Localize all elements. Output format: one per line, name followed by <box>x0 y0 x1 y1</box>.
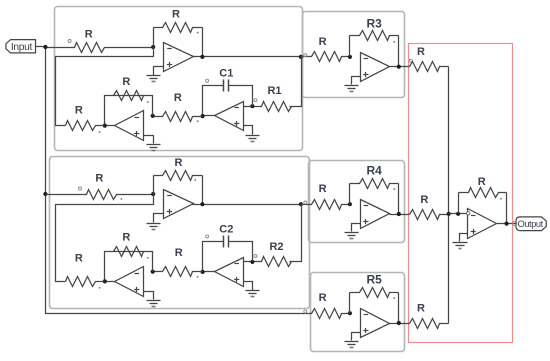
wire UR3 feedback down <box>398 36 400 67</box>
port marker <box>206 235 209 238</box>
wire U6 output <box>203 271 215 273</box>
node input junction <box>43 45 47 49</box>
resistor R stage1 integrator input <box>153 92 203 122</box>
wire U4 feedback up <box>153 176 155 195</box>
subsystem box R3 gain stage <box>303 12 405 98</box>
port marker <box>254 99 257 102</box>
wire summing vertical <box>448 67 450 324</box>
wire input to node A <box>36 47 46 48</box>
op-amp U7 <box>468 209 497 239</box>
wire U3 plus to ground <box>244 126 253 135</box>
svg-text:Output: Output <box>518 219 544 229</box>
ground U3 <box>246 136 260 142</box>
op-amp UR4 <box>361 200 390 229</box>
node stage1 output <box>299 55 303 59</box>
wire UR5 plus to ground <box>352 333 361 341</box>
node U5 inverting input <box>151 270 155 274</box>
subsystem box stage 2 <box>50 157 310 309</box>
svg-text:R: R <box>319 183 327 195</box>
wire C2 loop left <box>203 242 224 272</box>
wire C1 loop right <box>229 86 253 107</box>
node stage2 input junction <box>43 192 47 196</box>
resistor R stage2 return <box>66 253 105 287</box>
wire U1 output row <box>193 56 301 58</box>
node U1 output <box>200 55 204 59</box>
node U6 inverting input <box>250 260 254 264</box>
wire UR4 output <box>390 214 410 216</box>
pin marker <box>120 198 122 200</box>
port marker <box>254 255 257 258</box>
wire U4 output row <box>193 204 301 206</box>
svg-text:C1: C1 <box>219 68 233 80</box>
resistor R2 <box>244 241 292 267</box>
svg-text:R: R <box>75 105 83 117</box>
pin marker <box>194 179 196 181</box>
wire C1 loop left <box>203 86 224 117</box>
node U4 inverting input <box>151 192 155 196</box>
wire U1 feedback down <box>202 28 204 57</box>
svg-text:R: R <box>175 157 183 169</box>
ground U6 <box>246 291 260 297</box>
wire UR4 feedback up <box>349 184 351 205</box>
svg-text:R: R <box>172 9 180 21</box>
svg-text:R3: R3 <box>367 16 383 30</box>
subsystem box R5 gain stage <box>311 273 405 352</box>
resistor R stage2 U5 feedback <box>114 232 144 257</box>
ground U2 <box>147 145 161 151</box>
input port tag <box>6 40 36 53</box>
resistor R stage2 U4 feedback <box>154 157 203 181</box>
node U2 inverting input <box>151 114 155 118</box>
wire U1 plus to ground <box>154 67 164 76</box>
resistor R stage1 U2 feedback <box>114 76 144 101</box>
svg-text:R: R <box>478 176 486 188</box>
resistor R3 feedback <box>350 16 399 40</box>
resistor R R4 stage input <box>301 183 350 209</box>
svg-text:Input: Input <box>11 42 33 53</box>
wire R2 vertical <box>290 205 302 262</box>
port marker <box>79 187 82 190</box>
wire U7 output <box>497 223 517 225</box>
node U6 output <box>201 270 205 274</box>
resistor R stage1 input <box>46 29 154 53</box>
svg-text:R: R <box>420 194 428 206</box>
node UR3 inverting input <box>348 55 352 59</box>
node U7 feedback tap <box>456 212 460 216</box>
ground U7 <box>453 243 468 249</box>
ground UR3 <box>345 86 359 92</box>
resistor R summing middle <box>410 194 449 220</box>
pin marker <box>197 276 199 278</box>
wire U4 feedback down <box>202 176 204 205</box>
port marker U7 inverting input <box>467 212 470 215</box>
wire UR4 feedback down <box>398 184 400 215</box>
port marker <box>206 79 209 82</box>
wire summing to U7 <box>449 213 468 215</box>
svg-text:R4: R4 <box>367 164 383 178</box>
wire C2 loop right <box>229 242 253 262</box>
node U4 output <box>200 202 204 206</box>
port marker <box>304 310 307 313</box>
pin marker <box>99 287 101 289</box>
svg-text:C2: C2 <box>219 223 233 235</box>
pin marker <box>147 101 149 103</box>
pin marker <box>500 198 502 200</box>
wire U2 output <box>105 125 115 127</box>
resistor R R3 stage input <box>301 36 350 62</box>
node U3 output <box>201 114 205 118</box>
svg-text:R: R <box>319 36 327 48</box>
resistor R5 feedback <box>350 273 399 298</box>
wire U5 output <box>105 281 115 283</box>
pin marker <box>393 297 395 299</box>
resistor R1 <box>244 85 292 112</box>
svg-text:R: R <box>95 173 103 185</box>
node U3 inverting input <box>250 104 254 108</box>
summing block red box <box>409 44 513 343</box>
pin marker <box>197 32 199 34</box>
wire UR4 plus to ground <box>352 224 361 232</box>
op-amp U6 integrator <box>215 258 244 287</box>
ground UR5 <box>345 342 359 348</box>
wire UR3 output <box>390 66 410 68</box>
resistor R stage1 U1 feedback <box>154 9 203 33</box>
wire feedback return stage1 <box>56 48 154 126</box>
svg-text:R2: R2 <box>269 241 283 253</box>
pin marker <box>393 41 395 43</box>
op-amp U3 integrator <box>215 102 244 131</box>
wire R1 vertical <box>290 57 302 107</box>
resistor R summing top <box>410 46 449 71</box>
node UR4 output <box>397 212 401 216</box>
resistor R U7 feedback <box>459 176 507 198</box>
node U5 output <box>103 279 107 283</box>
wire U5 feedback <box>105 252 153 282</box>
op-amp U4 <box>164 190 194 219</box>
op-amp U1 <box>164 43 194 72</box>
output port tag <box>516 217 546 231</box>
subsystem box R4 gain stage <box>309 161 405 243</box>
op-amp U5 inverter <box>115 267 144 297</box>
resistor R stage1 return <box>66 105 105 131</box>
wire input vertical feed <box>46 48 311 314</box>
resistor R summing bottom <box>410 303 449 329</box>
svg-text:R1: R1 <box>267 85 281 97</box>
svg-text:R: R <box>122 76 130 88</box>
wire feedback return stage2 <box>56 195 154 282</box>
node UR5 output <box>397 321 401 325</box>
resistor R stage2 integrator input <box>153 247 203 277</box>
subsystem box stage 1 <box>55 7 303 151</box>
wire UR3 feedback up <box>349 36 351 57</box>
port marker <box>68 40 71 43</box>
wire U7 plus to ground <box>460 234 468 242</box>
wire U1 feedback up <box>153 28 155 48</box>
svg-text:R: R <box>417 303 425 315</box>
node stage2 output <box>299 202 303 206</box>
wire U2 plus to ground <box>144 136 154 144</box>
wire UR5 feedback up <box>349 293 351 314</box>
port marker <box>409 59 412 62</box>
svg-text:R: R <box>319 292 327 304</box>
port marker <box>304 54 307 57</box>
pin marker <box>197 120 199 122</box>
pin marker <box>147 257 149 259</box>
svg-text:R: R <box>85 29 93 41</box>
resistor R R5 stage input <box>311 292 350 318</box>
wire UR3 plus to ground <box>352 77 361 85</box>
svg-text:R: R <box>175 247 183 259</box>
ground U5 <box>147 301 161 307</box>
port marker <box>304 201 307 204</box>
wire UR5 output <box>390 323 410 325</box>
wire U4 plus to ground <box>154 214 164 223</box>
svg-text:R: R <box>75 253 83 265</box>
capacitor C2 <box>219 223 233 247</box>
wire U7 feedback down <box>506 193 508 224</box>
svg-text:R: R <box>417 46 425 58</box>
op-amp UR3 <box>361 53 390 82</box>
resistor R stage2 input <box>46 173 154 200</box>
ground U1 <box>147 76 161 82</box>
pin marker <box>99 131 101 133</box>
node summing junction <box>447 212 451 216</box>
pin marker <box>393 188 395 190</box>
node output junction <box>505 222 509 226</box>
node UR5 inverting input <box>348 311 352 315</box>
op-amp UR5 <box>361 309 390 338</box>
port marker output <box>513 222 517 226</box>
node U1 inverting input <box>151 45 155 49</box>
wire U6 plus to ground <box>244 282 253 291</box>
ground U4 <box>147 224 161 230</box>
wire U5 plus to ground <box>144 292 154 300</box>
node UR3 output <box>397 65 401 69</box>
svg-text:R: R <box>174 92 182 104</box>
wire U2 feedback <box>105 96 153 126</box>
wire UR5 feedback down <box>398 293 400 324</box>
node UR4 inverting input <box>348 202 352 206</box>
wire U3 output <box>203 115 215 117</box>
ground UR4 <box>345 233 359 239</box>
capacitor C1 <box>219 68 233 92</box>
svg-text:R5: R5 <box>367 273 383 287</box>
wire U7 feedback <box>458 193 460 214</box>
svg-text:R: R <box>122 232 130 244</box>
node U2 output <box>103 124 107 128</box>
op-amp U2 inverter <box>115 111 144 141</box>
resistor R4 feedback <box>350 164 399 189</box>
